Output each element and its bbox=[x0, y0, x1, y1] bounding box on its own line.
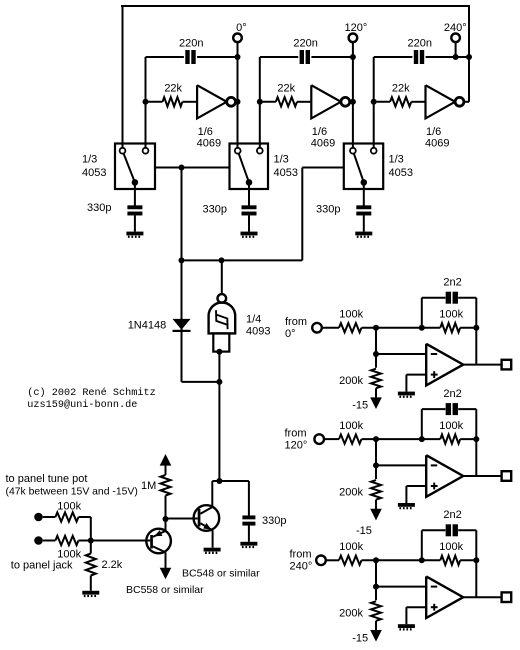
wire inverting input 3 bbox=[376, 560, 426, 600]
ground non-inverting 2 bbox=[398, 503, 415, 508]
wire timing cap to ground stage 1 bbox=[134, 215, 136, 231]
terminal output square 3 bbox=[502, 592, 512, 602]
op-amp minus sign 3 bbox=[431, 586, 437, 588]
wire op-amp output 2 bbox=[463, 475, 501, 477]
svg-text:4053: 4053 bbox=[82, 167, 106, 179]
capacitor 2n2 2 bbox=[446, 403, 458, 415]
svg-text:from: from bbox=[290, 549, 312, 561]
svg-text:BC548 or similar: BC548 or similar bbox=[182, 568, 260, 580]
wire collector tee bbox=[212, 481, 249, 516]
label to panel jack bbox=[11, 560, 73, 572]
wire nand input column bbox=[218, 352, 220, 481]
label BC558 bbox=[126, 584, 204, 596]
op-amp U1 bbox=[426, 344, 463, 386]
label BC548 bbox=[182, 568, 260, 580]
wire 22k row stage 1 bbox=[146, 101, 198, 103]
svg-text:-15: -15 bbox=[352, 633, 368, 645]
svg-text:220n: 220n bbox=[179, 38, 203, 50]
capacitor 2n2 1 bbox=[446, 292, 458, 304]
svg-text:1/3: 1/3 bbox=[82, 154, 97, 166]
transistor Q1 emitter bbox=[200, 523, 212, 530]
switch 1/3 4053 box stage 2 bbox=[230, 144, 269, 190]
diode 1N4148 bbox=[173, 319, 191, 332]
transistor Q2 collector bbox=[153, 546, 166, 552]
node inverting input junction 2 bbox=[373, 462, 379, 468]
svg-text:1/3: 1/3 bbox=[389, 154, 404, 166]
resistor 100k input 2 bbox=[339, 435, 362, 444]
wire box3 input bbox=[302, 168, 344, 261]
svg-text:0°: 0° bbox=[285, 328, 296, 340]
nand input loop bbox=[213, 333, 229, 351]
wire 200k to -15 2 bbox=[375, 500, 377, 510]
capacitor 220n stage 3 bbox=[414, 50, 424, 64]
svg-text:2n2: 2n2 bbox=[443, 388, 461, 400]
svg-text:4093: 4093 bbox=[246, 326, 270, 338]
node reset rail nand junction bbox=[219, 257, 225, 263]
svg-text:100k: 100k bbox=[339, 541, 363, 553]
label 220n stage 2 bbox=[293, 38, 317, 50]
resistor 200k 3 bbox=[371, 601, 381, 621]
label 1/3 4053 stage 3 bbox=[389, 154, 413, 180]
terminal 240&#176; output bbox=[451, 34, 460, 58]
label 2n2 2 bbox=[443, 388, 461, 400]
label 2n2 1 bbox=[443, 277, 461, 289]
label 1N4148 bbox=[128, 319, 167, 331]
switch contact B stage 2 bbox=[257, 148, 263, 154]
label 22k stage 2 bbox=[277, 83, 295, 95]
node stage 2 cap/output junction bbox=[350, 54, 356, 60]
svg-text:1/6: 1/6 bbox=[198, 126, 213, 138]
svg-text:0°: 0° bbox=[236, 22, 247, 34]
ground non-inverting 3 bbox=[398, 624, 415, 629]
resistor 100k feedback 1 bbox=[440, 323, 460, 332]
switch contact B stage 1 bbox=[143, 148, 149, 154]
svg-text:100k: 100k bbox=[339, 309, 363, 321]
switch 1/3 4053 box stage 1 bbox=[115, 144, 155, 190]
node inverter output junction stage 2 bbox=[350, 99, 356, 105]
transistor Q1 BC548 body bbox=[194, 505, 220, 531]
node stage 1 cap/output junction bbox=[235, 54, 241, 60]
terminal 120&#176; output bbox=[349, 34, 358, 43]
label 220n stage 3 bbox=[408, 38, 432, 50]
svg-text:4069: 4069 bbox=[197, 138, 221, 150]
wire jack row bbox=[43, 540, 150, 542]
svg-text:100k: 100k bbox=[57, 501, 81, 513]
node feedback left 1 bbox=[419, 325, 425, 331]
svg-text:-15: -15 bbox=[352, 400, 368, 412]
wire box1 output to box2 bbox=[155, 167, 230, 169]
svg-text:4069: 4069 bbox=[425, 138, 449, 150]
inverter 1/6 4069 U3 bbox=[426, 85, 464, 118]
svg-text:120°: 120° bbox=[345, 22, 368, 34]
resistor 100k feedback 3 bbox=[440, 556, 460, 565]
wire diode branch bbox=[182, 260, 220, 382]
wire feedback loop stage 2 bbox=[260, 57, 353, 148]
label 200k 1 bbox=[339, 375, 363, 387]
switch pole stage 1 bbox=[132, 179, 139, 186]
svg-text:4069: 4069 bbox=[311, 138, 335, 150]
label 100k feedback 2 bbox=[439, 420, 463, 432]
capacitor 220n stage 2 bbox=[300, 50, 310, 64]
capacitor 330p emitter-timing bbox=[242, 515, 255, 525]
svg-text:22k: 22k bbox=[277, 83, 295, 95]
label 220n stage 1 bbox=[179, 38, 203, 50]
label 2.2k bbox=[102, 559, 123, 571]
ground stage 3 bbox=[355, 232, 372, 237]
wire op-amp output 3 bbox=[463, 596, 501, 598]
wire inverting input 2 bbox=[376, 439, 426, 479]
node inverting input junction 1 bbox=[373, 351, 379, 357]
svg-text:(47k between 15V and -15V): (47k between 15V and -15V) bbox=[6, 487, 138, 498]
supply +15 arrow 1M bbox=[160, 454, 172, 466]
wire timing cap to ground stage 2 bbox=[248, 215, 250, 231]
resistor 100k feedback 2 bbox=[440, 435, 460, 444]
label 200k 3 bbox=[339, 608, 363, 620]
terminal op-amp input 3 bbox=[316, 556, 326, 566]
nand gate 1/4 4093 body bbox=[209, 302, 236, 333]
label 330p stage 3 bbox=[316, 203, 340, 215]
node feedback left 3 bbox=[419, 557, 425, 563]
svg-text:BC558 or similar: BC558 or similar bbox=[126, 584, 204, 596]
terminal output square 2 bbox=[502, 471, 512, 481]
svg-text:240°: 240° bbox=[444, 22, 467, 34]
label 1/6 4069 stage 2 bbox=[311, 126, 335, 150]
svg-text:uzs159@uni-bonn.de: uzs159@uni-bonn.de bbox=[27, 399, 137, 411]
svg-text:220n: 220n bbox=[408, 38, 432, 50]
label 240&#176; bbox=[444, 22, 467, 34]
label from 120&#176; bbox=[285, 427, 308, 451]
svg-text:100k: 100k bbox=[339, 420, 363, 432]
wire 22k row stage 2 bbox=[260, 101, 312, 103]
wire Q1 emitter to ground bbox=[212, 530, 214, 547]
svg-text:200k: 200k bbox=[339, 486, 363, 498]
node base junction bbox=[163, 516, 169, 522]
label 1/3 4053 stage 2 bbox=[274, 154, 298, 180]
svg-text:4053: 4053 bbox=[389, 167, 413, 179]
wire tune pot row bbox=[43, 517, 91, 541]
wire non-inverting to ground 2 bbox=[406, 486, 426, 503]
resistor 22k stage 3 bbox=[390, 97, 411, 106]
node feedback right 1 bbox=[473, 325, 479, 331]
svg-text:100k: 100k bbox=[439, 541, 463, 553]
node stage 1 integrator input junction bbox=[143, 99, 149, 105]
wire op-amp input row 3 bbox=[326, 559, 477, 561]
node stage 3 integrator input junction bbox=[371, 99, 377, 105]
wire feedback cap loop 3 bbox=[422, 530, 477, 597]
node stage 3 riser junction bbox=[466, 54, 472, 60]
node stage 2 integrator input junction bbox=[257, 99, 263, 105]
svg-text:1M: 1M bbox=[141, 480, 156, 492]
resistor 1M bbox=[161, 475, 171, 496]
wire pole to timing cap stage 3 bbox=[363, 182, 365, 205]
svg-text:(c) 2002 René Schmitz: (c) 2002 René Schmitz bbox=[27, 387, 155, 399]
wire reset rail drop bbox=[181, 168, 183, 261]
switch lever stage 1 bbox=[124, 154, 135, 183]
switch lever stage 2 bbox=[239, 154, 249, 183]
wire pole to timing cap stage 2 bbox=[248, 182, 250, 205]
ground non-inverting 1 bbox=[398, 392, 415, 397]
wire feedback cap loop 1 bbox=[422, 298, 477, 365]
wire non-inverting to ground 1 bbox=[406, 375, 426, 392]
label 1/3 4053 stage 1 bbox=[82, 154, 106, 180]
svg-text:1N4148: 1N4148 bbox=[128, 319, 167, 331]
label from 0&#176; bbox=[285, 316, 307, 340]
svg-text:1/6: 1/6 bbox=[312, 126, 327, 138]
switch contact A stage 1 bbox=[120, 148, 126, 154]
label 1/6 4069 stage 1 bbox=[197, 126, 221, 150]
node box1/box2 junction bbox=[179, 165, 185, 171]
label 2n2 3 bbox=[443, 509, 461, 521]
node feedback left 2 bbox=[419, 436, 425, 442]
ground Q1 emitter bbox=[204, 548, 221, 553]
ground 330p bottom bbox=[240, 542, 257, 547]
wire top feedback rail bbox=[121, 5, 470, 7]
label 100k input 2 bbox=[339, 420, 363, 432]
label -15 1 bbox=[352, 400, 368, 412]
label 330p stage 2 bbox=[203, 203, 227, 215]
label 100k jack bbox=[57, 548, 81, 560]
switch contact B stage 3 bbox=[371, 148, 377, 154]
node inverter output junction stage 1 bbox=[235, 99, 241, 105]
op-amp U2 bbox=[426, 455, 463, 497]
terminal jack bbox=[34, 536, 43, 545]
supply -15 arrow 3 bbox=[370, 630, 382, 642]
wire 2.2k branch bbox=[90, 541, 92, 591]
svg-text:from: from bbox=[285, 316, 307, 328]
wire Q2 collector to -15 bbox=[165, 552, 167, 568]
terminal op-amp input 1 bbox=[312, 323, 322, 333]
wire op-amp output 1 bbox=[463, 364, 501, 366]
terminal 0&#176; output bbox=[233, 34, 242, 43]
resistor 2.2k bbox=[86, 554, 96, 576]
transistor Q2 base bar bbox=[150, 535, 153, 549]
wire pole to timing cap stage 1 bbox=[134, 182, 136, 205]
svg-text:220n: 220n bbox=[293, 38, 317, 50]
wire timing cap to ground stage 3 bbox=[363, 215, 365, 231]
label 120&#176; bbox=[345, 22, 368, 34]
switch 1/3 4053 box stage 3 bbox=[344, 144, 383, 190]
capacitor 220n stage 1 bbox=[185, 50, 195, 64]
svg-text:1/3: 1/3 bbox=[274, 154, 289, 166]
wire reset rail bbox=[182, 259, 303, 261]
svg-text:1/4: 1/4 bbox=[246, 314, 261, 326]
label 100k input 1 bbox=[339, 309, 363, 321]
wire feedback cap loop 2 bbox=[422, 409, 477, 476]
switch contact A stage 3 bbox=[350, 148, 356, 154]
node inverting input junction 3 bbox=[373, 584, 379, 590]
svg-text:2.2k: 2.2k bbox=[102, 559, 123, 571]
resistor 200k 1 bbox=[371, 369, 381, 389]
label 100k tune bbox=[57, 501, 81, 513]
wire inverter output stage 3 bbox=[464, 101, 469, 103]
transistor Q1 collector bbox=[200, 507, 212, 514]
node op-amp summing 3 bbox=[373, 557, 379, 563]
capacitor 2n2 3 bbox=[446, 524, 458, 536]
wire 330p to ground bbox=[248, 525, 250, 542]
svg-text:to panel jack: to panel jack bbox=[11, 560, 73, 572]
wire nand output bbox=[221, 260, 223, 294]
label -15 2 bbox=[356, 525, 372, 537]
svg-text:100k: 100k bbox=[439, 309, 463, 321]
switch lever stage 3 bbox=[354, 154, 364, 182]
wire op-amp input row 2 bbox=[324, 438, 476, 440]
label 1/4 4093 bbox=[246, 314, 270, 338]
label to panel tune pot bbox=[6, 473, 88, 485]
wire output column stage 1 bbox=[237, 42, 239, 148]
op-amp plus sign 2 bbox=[431, 483, 438, 490]
inverter 1/6 4069 U1 bbox=[197, 85, 235, 118]
node reset rail left junction bbox=[179, 257, 185, 263]
resistor 100k input 3 bbox=[339, 556, 362, 565]
svg-text:2n2: 2n2 bbox=[443, 509, 461, 521]
wire inverter output stage 1 bbox=[236, 101, 238, 103]
node op-amp summing 2 bbox=[373, 436, 379, 442]
wire op-amp input row 1 bbox=[322, 327, 477, 329]
wire inverting input 1 bbox=[376, 328, 426, 368]
node feedback right 2 bbox=[473, 436, 479, 442]
wire right feedback riser bbox=[468, 6, 470, 102]
wire output column stage 2 bbox=[352, 42, 354, 148]
svg-text:2n2: 2n2 bbox=[443, 277, 461, 289]
wire Q1 base bbox=[166, 518, 198, 520]
wire feedback loop stage 3 bbox=[374, 57, 469, 148]
wire left feedback drop bbox=[122, 6, 124, 148]
label 22k stage 1 bbox=[164, 83, 182, 95]
svg-text:4053: 4053 bbox=[274, 167, 298, 179]
terminal op-amp input 2 bbox=[314, 434, 324, 444]
label 1/6 4069 stage 3 bbox=[425, 126, 449, 150]
resistor 22k stage 2 bbox=[276, 97, 297, 106]
svg-text:120°: 120° bbox=[285, 440, 308, 452]
wire 22k row stage 3 bbox=[374, 101, 426, 103]
node op-amp summing 1 bbox=[373, 325, 379, 331]
ground 2.2k bbox=[82, 591, 99, 596]
label 200k 2 bbox=[339, 486, 363, 498]
svg-text:330p: 330p bbox=[262, 515, 286, 527]
node collector junction bbox=[216, 478, 222, 484]
label copyright bbox=[27, 387, 155, 411]
node summing junction bbox=[88, 538, 94, 544]
label 100k feedback 3 bbox=[439, 541, 463, 553]
supply -15 arrow Q2 bbox=[160, 568, 172, 580]
op-amp plus sign 3 bbox=[431, 604, 438, 611]
capacitor 330p stage 3 bbox=[356, 205, 371, 215]
label 1M bbox=[141, 480, 156, 492]
label -15 3 bbox=[352, 633, 368, 645]
terminal output square 1 bbox=[502, 360, 512, 370]
svg-text:to panel tune pot: to panel tune pot bbox=[6, 473, 88, 485]
label 47k note bbox=[6, 487, 138, 498]
svg-text:330p: 330p bbox=[316, 203, 340, 215]
supply -15 arrow 2 bbox=[370, 509, 382, 521]
resistor 100k tune bbox=[55, 512, 78, 521]
label 330p bottom bbox=[262, 515, 286, 527]
svg-text:from: from bbox=[285, 427, 307, 439]
node feedback right 3 bbox=[473, 557, 479, 563]
switch pole stage 2 bbox=[246, 179, 253, 186]
node nand input junction bbox=[216, 349, 222, 355]
op-amp minus sign 1 bbox=[431, 353, 437, 355]
svg-text:200k: 200k bbox=[339, 608, 363, 620]
node diode/nand junction bbox=[216, 379, 222, 385]
wire feedback loop stage 1 bbox=[146, 57, 238, 148]
transistor Q2 BC558 body bbox=[146, 529, 171, 554]
inverter 1/6 4069 U2 bbox=[311, 85, 349, 118]
svg-text:240°: 240° bbox=[290, 561, 313, 573]
capacitor 330p stage 1 bbox=[127, 205, 142, 215]
wire non-inverting to ground 3 bbox=[406, 607, 426, 624]
resistor 100k input 1 bbox=[339, 323, 362, 332]
wire 1M branch bbox=[165, 465, 167, 531]
wire 200k to -15 3 bbox=[375, 621, 377, 631]
svg-text:1/6: 1/6 bbox=[426, 126, 441, 138]
node stage 3 cap/output junction bbox=[453, 54, 459, 60]
wire inverter output stage 2 bbox=[350, 101, 353, 103]
label 100k input 3 bbox=[339, 541, 363, 553]
svg-text:330p: 330p bbox=[203, 203, 227, 215]
op-amp plus sign 1 bbox=[431, 371, 438, 378]
resistor 200k 2 bbox=[371, 480, 381, 500]
switch pole stage 3 bbox=[361, 179, 368, 186]
op-amp minus sign 2 bbox=[431, 464, 437, 466]
svg-text:330p: 330p bbox=[87, 202, 111, 214]
transistor Q1 base bar bbox=[198, 509, 201, 527]
label 330p stage 1 bbox=[87, 202, 111, 214]
wire 200k to -15 1 bbox=[375, 388, 377, 398]
ground stage 1 bbox=[126, 232, 143, 237]
label 100k feedback 1 bbox=[439, 309, 463, 321]
supply -15 arrow 1 bbox=[370, 397, 382, 409]
nand hysteresis symbol bbox=[216, 310, 228, 329]
resistor 100k jack bbox=[55, 536, 78, 545]
svg-text:22k: 22k bbox=[392, 83, 410, 95]
svg-text:-15: -15 bbox=[356, 525, 372, 537]
transistor Q2 emitter bbox=[153, 530, 166, 537]
svg-text:100k: 100k bbox=[439, 420, 463, 432]
svg-text:200k: 200k bbox=[339, 375, 363, 387]
ground stage 2 bbox=[241, 232, 258, 237]
resistor 22k stage 1 bbox=[163, 97, 183, 106]
svg-text:22k: 22k bbox=[164, 83, 182, 95]
terminal tune pot top bbox=[34, 513, 43, 522]
nand gate 1/4 4093 bubble bbox=[218, 294, 227, 303]
label 0&#176; bbox=[236, 22, 247, 34]
capacitor 330p stage 2 bbox=[242, 205, 257, 215]
switch contact A stage 2 bbox=[235, 148, 241, 154]
op-amp U3 bbox=[426, 576, 463, 618]
label 22k stage 3 bbox=[392, 83, 410, 95]
svg-text:100k: 100k bbox=[57, 548, 81, 560]
label from 240&#176; bbox=[290, 549, 313, 573]
